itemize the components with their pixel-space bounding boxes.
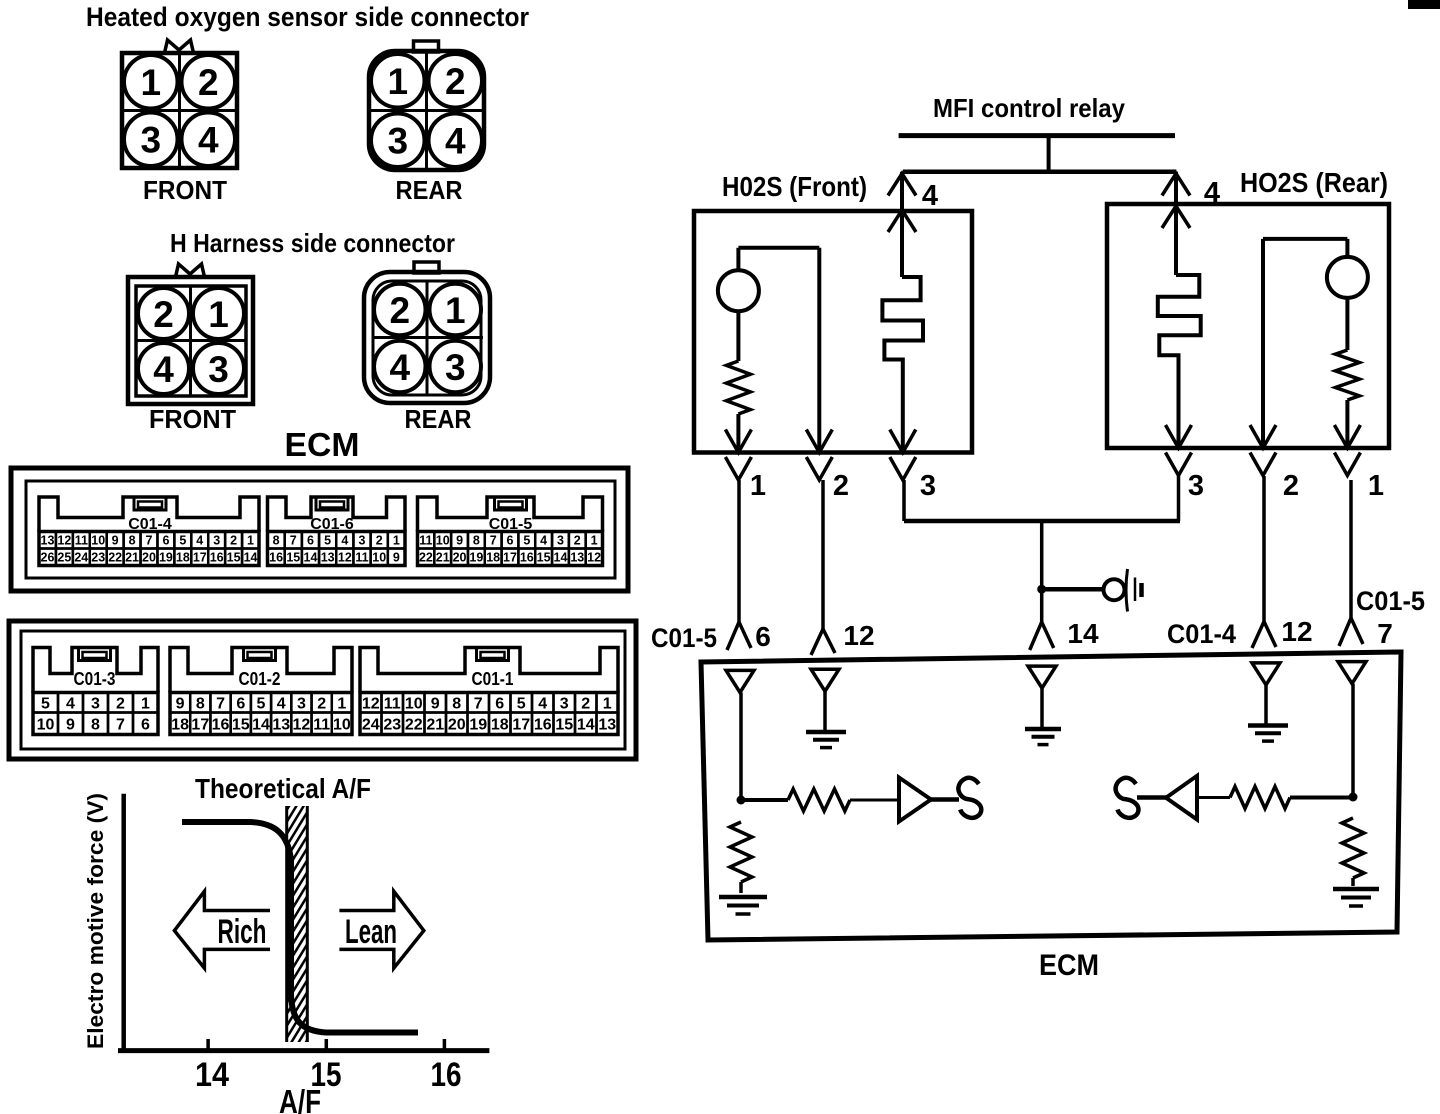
svg-text:C01-1: C01-1 xyxy=(472,669,514,689)
svg-text:4: 4 xyxy=(196,534,203,548)
svg-text:2: 2 xyxy=(581,695,590,712)
svg-text:9: 9 xyxy=(176,695,185,712)
svg-text:5: 5 xyxy=(523,534,530,548)
svg-text:5: 5 xyxy=(41,695,50,712)
svg-text:9: 9 xyxy=(66,716,75,733)
svg-text:19: 19 xyxy=(469,716,487,733)
svg-text:3: 3 xyxy=(387,121,408,162)
svg-text:8: 8 xyxy=(452,695,461,712)
svg-text:17: 17 xyxy=(193,551,207,565)
svg-text:25: 25 xyxy=(57,551,71,565)
svg-text:Electro motive force (V): Electro motive force (V) xyxy=(83,793,108,1049)
svg-text:C01-5: C01-5 xyxy=(651,623,717,653)
svg-text:15: 15 xyxy=(555,716,573,733)
svg-text:8: 8 xyxy=(473,534,480,548)
svg-text:13: 13 xyxy=(41,534,55,548)
svg-text:14: 14 xyxy=(304,551,318,565)
svg-text:18: 18 xyxy=(486,551,500,565)
svg-text:3: 3 xyxy=(213,534,220,548)
svg-text:10: 10 xyxy=(405,695,423,712)
svg-text:11: 11 xyxy=(355,551,368,565)
svg-text:REAR: REAR xyxy=(396,175,463,205)
svg-text:Rich: Rich xyxy=(218,913,267,951)
svg-text:Theoretical A/F: Theoretical A/F xyxy=(195,773,371,804)
svg-text:H02S (Front): H02S (Front) xyxy=(722,171,867,202)
svg-text:3: 3 xyxy=(91,695,100,712)
svg-text:16: 16 xyxy=(212,716,230,733)
svg-text:15: 15 xyxy=(286,551,300,565)
svg-text:9: 9 xyxy=(456,534,463,548)
svg-text:REAR: REAR xyxy=(405,404,472,434)
svg-text:12: 12 xyxy=(843,620,874,651)
svg-text:FRONT: FRONT xyxy=(143,175,227,205)
svg-text:7: 7 xyxy=(216,695,225,712)
svg-text:12: 12 xyxy=(362,695,380,712)
svg-text:6: 6 xyxy=(307,534,314,548)
svg-text:10: 10 xyxy=(333,716,351,733)
svg-text:24: 24 xyxy=(362,716,380,733)
svg-text:Lean: Lean xyxy=(345,913,397,951)
svg-text:5: 5 xyxy=(517,695,526,712)
svg-text:14: 14 xyxy=(577,716,595,733)
svg-text:8: 8 xyxy=(91,716,100,733)
svg-text:7: 7 xyxy=(290,534,297,548)
svg-text:10: 10 xyxy=(91,534,105,548)
svg-text:14: 14 xyxy=(1067,618,1099,649)
svg-text:20: 20 xyxy=(142,551,156,565)
svg-text:HO2S (Rear): HO2S (Rear) xyxy=(1240,167,1388,198)
svg-text:15: 15 xyxy=(227,551,241,565)
svg-text:7: 7 xyxy=(116,716,125,733)
svg-text:14: 14 xyxy=(244,551,258,565)
svg-text:Heated oxygen sensor side conn: Heated oxygen sensor side connector xyxy=(86,2,529,32)
svg-text:12: 12 xyxy=(338,551,352,565)
svg-text:18: 18 xyxy=(491,716,509,733)
svg-text:ECM: ECM xyxy=(1039,949,1099,982)
svg-text:13: 13 xyxy=(570,551,584,565)
svg-text:12: 12 xyxy=(1281,616,1312,647)
svg-text:1: 1 xyxy=(750,470,766,502)
svg-text:A/F: A/F xyxy=(279,1083,321,1114)
svg-text:18: 18 xyxy=(171,716,189,733)
svg-text:21: 21 xyxy=(426,716,444,733)
svg-text:4: 4 xyxy=(922,180,938,212)
svg-text:7: 7 xyxy=(1377,618,1393,649)
svg-text:MFI control relay: MFI control relay xyxy=(933,93,1125,123)
svg-text:8: 8 xyxy=(273,534,280,548)
svg-text:16: 16 xyxy=(269,551,283,565)
svg-text:4: 4 xyxy=(540,534,547,548)
svg-text:7: 7 xyxy=(490,534,497,548)
svg-text:23: 23 xyxy=(383,716,401,733)
svg-text:18: 18 xyxy=(176,551,190,565)
svg-text:2: 2 xyxy=(376,534,383,548)
svg-text:15: 15 xyxy=(232,716,250,733)
svg-text:4: 4 xyxy=(277,695,286,712)
svg-text:7: 7 xyxy=(146,534,153,548)
svg-text:16: 16 xyxy=(431,1056,462,1094)
svg-text:12: 12 xyxy=(293,716,311,733)
svg-text:4: 4 xyxy=(538,695,547,712)
svg-text:3: 3 xyxy=(1188,470,1204,502)
svg-text:5: 5 xyxy=(324,534,331,548)
svg-text:6: 6 xyxy=(507,534,514,548)
svg-text:13: 13 xyxy=(272,716,290,733)
svg-text:3: 3 xyxy=(557,534,564,548)
svg-text:C01-4: C01-4 xyxy=(1167,619,1236,649)
svg-text:14: 14 xyxy=(554,551,568,565)
svg-text:14: 14 xyxy=(252,716,270,733)
svg-text:10: 10 xyxy=(37,716,55,733)
svg-text:19: 19 xyxy=(159,551,173,565)
svg-text:2: 2 xyxy=(116,695,125,712)
svg-text:4: 4 xyxy=(341,534,348,548)
svg-text:3: 3 xyxy=(445,347,466,388)
svg-text:16: 16 xyxy=(210,551,224,565)
svg-text:22: 22 xyxy=(419,551,433,565)
svg-text:1: 1 xyxy=(387,61,408,102)
svg-text:1: 1 xyxy=(1368,470,1384,502)
svg-text:H Harness side connector: H Harness side connector xyxy=(170,228,455,258)
svg-text:6: 6 xyxy=(755,621,771,652)
svg-text:16: 16 xyxy=(534,716,552,733)
svg-text:6: 6 xyxy=(236,695,245,712)
svg-text:9: 9 xyxy=(431,695,440,712)
svg-text:26: 26 xyxy=(41,551,55,565)
svg-text:17: 17 xyxy=(512,716,530,733)
svg-text:10: 10 xyxy=(436,534,450,548)
svg-text:4: 4 xyxy=(66,695,75,712)
svg-text:16: 16 xyxy=(520,551,534,565)
svg-text:3: 3 xyxy=(920,470,936,502)
svg-text:14: 14 xyxy=(195,1056,229,1094)
svg-text:11: 11 xyxy=(313,716,330,733)
svg-text:C01-5: C01-5 xyxy=(1356,586,1425,616)
svg-text:13: 13 xyxy=(321,551,335,565)
svg-text:FRONT: FRONT xyxy=(149,404,236,434)
svg-text:2: 2 xyxy=(445,61,466,102)
svg-text:9: 9 xyxy=(112,534,119,548)
svg-text:22: 22 xyxy=(108,551,122,565)
svg-text:2: 2 xyxy=(198,62,219,103)
svg-text:21: 21 xyxy=(125,551,139,565)
svg-text:4: 4 xyxy=(198,120,219,161)
svg-text:20: 20 xyxy=(448,716,466,733)
svg-text:2: 2 xyxy=(389,290,410,331)
svg-text:23: 23 xyxy=(91,551,105,565)
svg-text:1: 1 xyxy=(140,62,161,103)
svg-text:5: 5 xyxy=(257,695,266,712)
svg-text:3: 3 xyxy=(208,349,229,390)
svg-text:10: 10 xyxy=(372,551,386,565)
svg-text:1: 1 xyxy=(591,534,598,548)
svg-text:3: 3 xyxy=(560,695,569,712)
svg-text:1: 1 xyxy=(247,534,254,548)
svg-text:15: 15 xyxy=(537,551,551,565)
svg-text:20: 20 xyxy=(453,551,467,565)
svg-text:4: 4 xyxy=(445,121,466,162)
svg-text:3: 3 xyxy=(140,120,161,161)
svg-text:12: 12 xyxy=(57,534,71,548)
svg-text:3: 3 xyxy=(297,695,306,712)
svg-text:2: 2 xyxy=(317,695,326,712)
svg-text:ECM: ECM xyxy=(285,426,360,463)
svg-text:6: 6 xyxy=(162,534,169,548)
svg-text:11: 11 xyxy=(384,695,401,712)
svg-text:1: 1 xyxy=(393,534,400,548)
svg-text:3: 3 xyxy=(359,534,366,548)
svg-text:19: 19 xyxy=(469,551,483,565)
svg-text:5: 5 xyxy=(179,534,186,548)
svg-text:24: 24 xyxy=(74,551,88,565)
svg-text:1: 1 xyxy=(141,695,150,712)
svg-text:13: 13 xyxy=(598,716,616,733)
svg-text:11: 11 xyxy=(75,534,88,548)
svg-text:1: 1 xyxy=(445,290,466,331)
svg-text:1: 1 xyxy=(208,294,229,335)
svg-text:C01-2: C01-2 xyxy=(239,669,281,689)
svg-text:2: 2 xyxy=(153,294,174,335)
svg-text:4: 4 xyxy=(153,349,174,390)
svg-text:21: 21 xyxy=(436,551,450,565)
svg-text:22: 22 xyxy=(405,716,423,733)
svg-text:17: 17 xyxy=(191,716,209,733)
svg-text:1: 1 xyxy=(337,695,346,712)
svg-text:6: 6 xyxy=(495,695,504,712)
svg-text:6: 6 xyxy=(141,716,150,733)
svg-text:7: 7 xyxy=(474,695,483,712)
svg-text:2: 2 xyxy=(574,534,581,548)
svg-text:11: 11 xyxy=(419,534,432,548)
svg-text:2: 2 xyxy=(833,470,849,502)
svg-text:9: 9 xyxy=(393,551,400,565)
svg-text:1: 1 xyxy=(603,695,612,712)
svg-text:12: 12 xyxy=(587,551,601,565)
svg-text:8: 8 xyxy=(129,534,136,548)
svg-text:8: 8 xyxy=(196,695,205,712)
svg-text:17: 17 xyxy=(503,551,517,565)
svg-text:C01-3: C01-3 xyxy=(74,669,116,689)
svg-text:2: 2 xyxy=(1283,470,1299,502)
svg-text:2: 2 xyxy=(230,534,237,548)
svg-text:4: 4 xyxy=(389,347,410,388)
